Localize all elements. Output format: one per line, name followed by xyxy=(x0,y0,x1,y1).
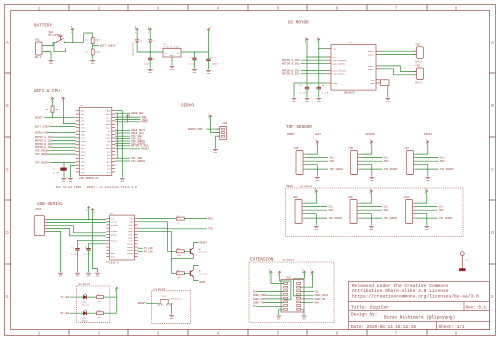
ground GND7 xyxy=(305,98,310,100)
svg-text:2SC1712: 2SC1712 xyxy=(199,251,208,254)
svg-text:https://creativecommons.org/li: https://creativecommons.org/licenses/by-… xyxy=(352,293,479,299)
svg-text:CN1: CN1 xyxy=(35,39,40,42)
wire USER_KEY2 cpu-right xyxy=(115,129,130,131)
ground GND15 xyxy=(58,272,63,274)
wire RESET cpu-right xyxy=(115,148,140,150)
test point TP1 xyxy=(460,252,464,256)
svg-text:DC MOTOR: DC MOTOR xyxy=(288,21,309,26)
wire CN8 sda xyxy=(305,209,327,211)
svg-text:+3.3V: +3.3V xyxy=(424,187,427,194)
svg-text:+BATT: +BATT xyxy=(208,112,211,119)
wire C1 tap xyxy=(149,52,151,58)
wire USER_KEY cpu-right xyxy=(115,112,130,114)
wire MOTOR_A_IN2 xyxy=(301,62,328,64)
wire U1 ground xyxy=(171,57,173,66)
svg-text:A: A xyxy=(491,40,494,46)
capacitor C2 xyxy=(192,57,196,59)
wire to R6 xyxy=(171,272,176,274)
svg-text:BIN2/BENBL: BIN2/BENBL xyxy=(333,73,346,76)
capacitor C1 xyxy=(148,57,152,59)
supply +3.3V arrow CN7 xyxy=(427,141,429,144)
svg-text:SDA: SDA xyxy=(439,209,444,212)
ground GND14 xyxy=(213,149,218,151)
wire CN9 gnd xyxy=(360,214,371,226)
svg-text:A: A xyxy=(6,40,9,46)
svg-text:CN12: CN12 xyxy=(286,277,293,280)
wire CN8 gnd xyxy=(305,214,316,226)
wire TX_LED to LED1 xyxy=(70,296,83,298)
svg-text:SERVO: SERVO xyxy=(181,104,194,109)
svg-text:4: 4 xyxy=(217,331,220,337)
svg-text:0.1uF: 0.1uF xyxy=(71,253,78,256)
svg-text:5: 5 xyxy=(277,331,280,337)
svg-text:MODE: MODE xyxy=(333,82,339,85)
svg-text:Title: DigiCar: Title: DigiCar xyxy=(351,304,389,310)
svg-text:3: 3 xyxy=(157,5,160,11)
svg-text:SCL: SCL xyxy=(253,305,258,308)
ground CN7 xyxy=(425,177,430,179)
svg-text:2: 2 xyxy=(98,5,101,11)
wire R4 to RXD label xyxy=(184,218,207,220)
svg-text:RIGHT: RIGHT xyxy=(424,133,432,136)
wire 3v3out rail xyxy=(92,212,97,272)
wire RESET to SW2 xyxy=(146,302,159,304)
wire CN6 scl xyxy=(361,157,383,159)
wire IO0 cpu-right xyxy=(115,116,140,118)
svg-text:TOF_SHDN6: TOF_SHDN6 xyxy=(35,153,49,156)
svg-text:Pin 17~22 (IO6 - IO11): no int: Pin 17~22 (IO6 - IO11): no internal flas… xyxy=(56,185,137,189)
svg-text:CN9: CN9 xyxy=(348,196,353,199)
wire usb pin2 xyxy=(47,222,106,224)
svg-text:3: 3 xyxy=(157,331,160,337)
svg-text:BOUT2: BOUT2 xyxy=(368,68,375,71)
svg-text:RESET: RESET xyxy=(138,302,146,305)
wire C1 to ground xyxy=(149,60,151,69)
frame row ticks left/right xyxy=(5,72,11,74)
connector CN2 xyxy=(417,47,424,59)
svg-text:no mount: no mount xyxy=(78,283,91,286)
supply 5V arrow leds xyxy=(116,287,118,290)
wire CN8 shdn xyxy=(305,217,327,219)
svg-text:Design by:: Design by: xyxy=(351,313,377,318)
svg-text:TOF SENSOR: TOF SENSOR xyxy=(286,125,312,130)
svg-text:GREEN: GREEN xyxy=(82,320,89,323)
svg-text:RESET: RESET xyxy=(141,148,149,151)
svg-text:+3.3V: +3.3V xyxy=(368,187,371,194)
dashed box extension xyxy=(249,262,334,323)
svg-text:D: D xyxy=(491,230,494,236)
svg-text:CN6: CN6 xyxy=(349,147,354,150)
diode LED2 GREEN xyxy=(83,311,86,315)
svg-text:0.1uF: 0.1uF xyxy=(53,172,60,175)
resistor R2 xyxy=(91,49,94,55)
wire LED1 to R7 xyxy=(86,296,96,298)
wire CN7 scl xyxy=(417,157,439,159)
svg-text:3V3: 3V3 xyxy=(93,208,96,213)
svg-text:0.1uF: 0.1uF xyxy=(84,253,91,256)
ground GND1 xyxy=(49,60,54,62)
svg-text:BATTERY: BATTERY xyxy=(34,24,52,29)
svg-text:CENTER: CENTER xyxy=(365,133,375,136)
supply V_USB arrow xyxy=(136,28,138,31)
wire Q2 emitter to BOOT xyxy=(194,277,199,281)
wire USER_PW ext-right xyxy=(301,298,314,300)
svg-text:no mount: no mount xyxy=(282,258,295,261)
wire U1 output bus xyxy=(181,51,208,53)
svg-text:CN7: CN7 xyxy=(405,147,410,150)
svg-text:SDA: SDA xyxy=(330,160,335,163)
supply +BATT arrow motor xyxy=(306,39,308,42)
wire C2 tap xyxy=(194,52,196,58)
supply V_BAT arrow xyxy=(72,28,74,31)
wire CN10 vcc xyxy=(416,193,427,203)
capacitor C4 xyxy=(305,86,309,88)
wire CN8 vcc xyxy=(305,193,316,203)
wire CN1 pin2 to ground xyxy=(44,52,51,60)
wire RX_LED to LED2 xyxy=(70,312,83,314)
ic U3 ESP-WROOM-32 xyxy=(79,107,112,175)
svg-text:E: E xyxy=(6,294,9,300)
svg-text:RESET: RESET xyxy=(200,241,208,244)
ic U4 FT231XS xyxy=(110,215,135,260)
ground CN9 xyxy=(369,226,374,228)
wire CN1 pin1 to switch xyxy=(44,42,56,45)
resistor R7 xyxy=(97,296,104,299)
wire D1 to bus xyxy=(149,42,151,52)
resistor R1 xyxy=(91,38,94,44)
ground GND18 xyxy=(95,272,100,274)
svg-text:E: E xyxy=(491,294,494,300)
svg-text:ESP-WROOM-32: ESP-WROOM-32 xyxy=(79,177,98,180)
ground CN6 xyxy=(369,177,374,179)
wire R7 to 5V rail xyxy=(104,296,117,298)
svg-text:SDA: SDA xyxy=(384,209,389,212)
svg-text:3V3OUT: 3V3OUT xyxy=(111,224,119,227)
svg-text:RX_LED: RX_LED xyxy=(60,312,70,315)
svg-text:EVPPNACDS14: EVPPNACDS14 xyxy=(169,297,183,300)
wire C7 top xyxy=(78,240,107,248)
ground GND6 xyxy=(206,70,211,72)
svg-text:Sheet: 1/1: Sheet: 1/1 xyxy=(439,325,465,330)
wire SCL ext-right xyxy=(301,291,314,293)
svg-text:FT231X-S: FT231X-S xyxy=(106,261,119,264)
svg-text:Attribution Share-Alike 3.0 Li: Attribution Share-Alike 3.0 License xyxy=(352,288,449,294)
svg-text:+3.3V: +3.3V xyxy=(60,95,63,102)
svg-text:Bizan Nishimura (@lipoyang): Bizan Nishimura (@lipoyang) xyxy=(384,316,455,321)
wire CN4 pin3 to ground xyxy=(215,136,219,148)
wire switch to battery net xyxy=(65,33,93,42)
wire cpu right rail2 xyxy=(116,113,118,158)
svg-text:TX_LED: TX_LED xyxy=(60,296,70,299)
svg-text:TXD: TXD xyxy=(208,228,213,231)
svg-text:+3.3V: +3.3V xyxy=(128,112,131,119)
regulator U1 TLV62569 xyxy=(163,49,181,58)
svg-text:TOF_SHDN4: TOF_SHDN4 xyxy=(329,217,343,220)
wire MOTOR_B_IN2 cpu-left xyxy=(52,146,76,148)
svg-text:LEFT: LEFT xyxy=(315,133,322,136)
connector CN4 servo xyxy=(220,127,227,140)
supply +3.3V arrow CN9 xyxy=(370,190,372,193)
wire TXD0 cpu-right xyxy=(115,118,140,120)
wire TXD to R4 xyxy=(138,218,176,220)
wire C7 gnd xyxy=(77,250,79,272)
svg-text:CN5: CN5 xyxy=(294,147,299,150)
supply +3.3V arrow CN8 xyxy=(315,190,317,193)
capacitor C5 xyxy=(317,86,321,88)
ground GND11 xyxy=(61,178,66,180)
wire cbus to R5 xyxy=(138,228,176,251)
svg-text:V_BAT: V_BAT xyxy=(302,268,305,275)
jumper SJ1 on ground pin xyxy=(379,82,382,84)
wire switch throw loop xyxy=(54,43,65,52)
svg-text:Date: 2020-08-14 15:52:25: Date: 2020-08-14 15:52:25 xyxy=(351,325,417,330)
transistor Q1 xyxy=(189,249,191,254)
svg-text:EH-2: EH-2 xyxy=(416,82,423,85)
capacitor C6 filled xyxy=(61,168,67,171)
wire TOF_SDA cpu-right xyxy=(115,135,130,137)
wire CN9 vcc xyxy=(360,193,371,203)
svg-text:BOOT: BOOT xyxy=(200,281,207,284)
svg-text:CN10: CN10 xyxy=(404,196,411,199)
wire TOF_SHDN6 cpu-left xyxy=(49,153,76,155)
wire ext3 xyxy=(294,274,305,296)
wire R2 to ground xyxy=(92,55,94,60)
wire TOF_SCL cpu-right xyxy=(115,138,130,140)
svg-text:WIFI & CPU: WIFI & CPU xyxy=(34,89,60,94)
supply +3.3V arrow motor xyxy=(318,39,320,42)
ground CN5 xyxy=(315,177,320,179)
wire CN5 shdn xyxy=(306,168,328,170)
wire +BATT to VM pin xyxy=(307,56,327,58)
supply V_BAT arrow ext3 xyxy=(304,271,306,274)
wire CN9 sda xyxy=(360,209,382,211)
svg-text:8: 8 xyxy=(455,331,458,337)
connector CN3 xyxy=(417,68,424,80)
wire +BATT to CN4 xyxy=(211,118,220,132)
wire MOTOR_A_IN1 xyxy=(301,59,328,61)
ground CN8 xyxy=(314,226,319,228)
wire V_USB to D2 xyxy=(136,31,138,39)
svg-text:6: 6 xyxy=(336,331,339,337)
ground GND21 xyxy=(276,315,281,317)
svg-text:CN8: CN8 xyxy=(293,196,298,199)
wire USER_KEY0 ext-right xyxy=(301,294,314,296)
wire CN5 sda xyxy=(306,160,328,162)
svg-text:10uF: 10uF xyxy=(144,62,150,65)
wire BATT_CHECK stub xyxy=(93,45,99,47)
diode LED1 YELLOW xyxy=(83,295,86,299)
resistor R5 xyxy=(176,250,184,253)
wire C8 gnd xyxy=(88,250,90,272)
diode D1 xyxy=(149,31,151,39)
wire usb dp xyxy=(47,229,106,236)
svg-text:SCL: SCL xyxy=(384,157,389,160)
supply +BATT arrow ext4 xyxy=(312,271,314,274)
svg-text:+3.3V: +3.3V xyxy=(425,138,428,145)
svg-text:+3.3V: +3.3V xyxy=(369,138,372,145)
svg-text:FRONT: FRONT xyxy=(287,133,295,136)
ground GND2 xyxy=(90,60,95,62)
svg-text:RXD: RXD xyxy=(208,218,213,221)
svg-text:CBUS3: CBUS3 xyxy=(127,252,134,255)
wire CN5 vcc xyxy=(306,144,317,154)
wire CN6 sda xyxy=(361,160,383,162)
svg-text:no mount: no mount xyxy=(300,185,313,188)
wire CN10 sda xyxy=(416,209,438,211)
wire D2 to input bus xyxy=(137,42,163,52)
svg-text:+BATT: +BATT xyxy=(304,36,307,43)
connector CN1 xyxy=(36,42,43,55)
wire usb shield gnd xyxy=(47,231,61,272)
resistor R3 pullup xyxy=(51,106,54,112)
svg-text:SDA: SDA xyxy=(329,209,334,212)
svg-text:+3.3V: +3.3V xyxy=(313,187,316,194)
wire RESET to EN pin xyxy=(44,117,76,119)
wire R6 to Q2 base xyxy=(184,272,190,274)
wire MOTOR_B_IN1 cpu-left xyxy=(52,143,76,145)
svg-text:USER_KEY0: USER_KEY0 xyxy=(315,294,329,297)
wire AOUT1 to CN2 xyxy=(380,50,417,52)
supply +3.3V arrow vcc xyxy=(62,98,64,101)
svg-text:TOF_SHDN4: TOF_SHDN4 xyxy=(35,161,49,164)
supply +BATT arrow servo xyxy=(210,115,212,118)
test point pad xyxy=(459,269,465,271)
wire MOTOR_A_IN1 cpu-left xyxy=(52,136,76,138)
wire +BATT rail down to C4 xyxy=(306,42,308,88)
svg-text:VI: VI xyxy=(165,52,167,55)
svg-text:V_BAT: V_BAT xyxy=(70,25,73,32)
svg-text:CN11: CN11 xyxy=(35,208,42,211)
wire BATT_CHECK cpu-left xyxy=(50,126,75,128)
ground GND12 xyxy=(68,178,73,180)
wire SERVO_PWM cpu-left xyxy=(49,131,76,133)
wire +3.3V to VCC pin xyxy=(319,48,327,50)
dashed box REAR no mount xyxy=(286,188,464,237)
svg-text:100k: 100k xyxy=(95,51,101,54)
wire CN10 scl xyxy=(416,206,438,208)
svg-text:CN3: CN3 xyxy=(416,65,421,68)
wire CN7 gnd xyxy=(417,165,428,177)
svg-text:USER_PW: USER_PW xyxy=(315,298,326,301)
wire Q2 collector xyxy=(194,266,199,270)
svg-text:RXD0: RXD0 xyxy=(141,121,148,124)
wire SW2 to ground xyxy=(171,303,172,314)
svg-text:AOUT2: AOUT2 xyxy=(368,54,375,57)
wire CN7 shdn xyxy=(417,168,439,170)
wire CN5 gnd xyxy=(306,165,317,177)
wire +3.3V to 3V3 pin xyxy=(63,101,75,124)
wire SDA ext-right xyxy=(301,302,314,304)
wire MODE pin to ground xyxy=(294,83,327,98)
svg-text:SCL: SCL xyxy=(384,206,389,209)
supply 5V arrow usb xyxy=(88,207,90,210)
svg-text:SDA: SDA xyxy=(440,160,445,163)
svg-text:SCL: SCL xyxy=(439,206,444,209)
wire cbus to R6 xyxy=(138,230,171,232)
svg-text:TOF_SHDN2: TOF_SHDN2 xyxy=(384,168,398,171)
wire USER_LED cpu-right xyxy=(115,132,130,134)
dashed box reset switch no mount xyxy=(152,291,191,324)
svg-text:TOF_SHDN5: TOF_SHDN5 xyxy=(384,217,398,220)
svg-text:0.1uF: 0.1uF xyxy=(300,92,307,95)
capacitor C3 xyxy=(206,58,210,60)
svg-text:6: 6 xyxy=(336,5,339,11)
wire cpu gnd2 down xyxy=(69,165,71,177)
svg-text:REAR: REAR xyxy=(287,185,294,188)
svg-text:1: 1 xyxy=(38,331,41,337)
svg-text:SW2: SW2 xyxy=(162,294,167,297)
svg-text:100uF: 100uF xyxy=(212,62,219,65)
svg-text:TLV62/3.3-DB: TLV62/3.3-DB xyxy=(163,46,179,49)
wire CN9 scl xyxy=(360,206,382,208)
dashed box LEDs no mount xyxy=(76,286,110,322)
wire CN10 shdn xyxy=(416,217,438,219)
title block frame xyxy=(349,282,490,330)
svg-text:5: 5 xyxy=(277,5,280,11)
wire CN6 gnd xyxy=(361,165,372,177)
svg-text:USER_TX: USER_TX xyxy=(253,302,264,305)
wire R5 to Q1 base xyxy=(184,250,190,252)
wire USER_RX ext-left xyxy=(263,298,283,300)
wire USER_PWM1 ext-left xyxy=(266,294,283,296)
svg-text:+BATT: +BATT xyxy=(310,268,313,275)
svg-text:+3.3V: +3.3V xyxy=(209,26,212,33)
svg-text:BATT_CHECK: BATT_CHECK xyxy=(100,45,116,48)
wire MOTOR_A_IN2 cpu-left xyxy=(52,140,76,142)
wire SCL ext-left xyxy=(257,305,283,307)
svg-text:AIN2/AENBL: AIN2/AENBL xyxy=(333,62,346,65)
ground GND8 xyxy=(316,98,321,100)
svg-text:SERVO_PWM: SERVO_PWM xyxy=(35,131,49,134)
svg-text:GND: GND xyxy=(170,55,173,57)
wire TOF_SDA cpu-right xyxy=(115,157,130,159)
svg-text:+3.3V: +3.3V xyxy=(314,138,317,145)
wire C4 to ground xyxy=(306,89,308,98)
svg-text:YELLOW: YELLOW xyxy=(82,303,90,306)
svg-text:USER_RX: USER_RX xyxy=(253,298,264,301)
svg-text:7: 7 xyxy=(395,5,398,11)
wire USER_TX ext-left xyxy=(263,302,283,304)
svg-text:USB-SERIAL: USB-SERIAL xyxy=(37,202,63,207)
wire ext gnd right xyxy=(301,310,304,315)
wire CN7 vcc xyxy=(417,144,428,154)
svg-text:V_BAT: V_BAT xyxy=(147,25,150,32)
wire ext1 xyxy=(271,274,284,283)
svg-text:D: D xyxy=(6,230,9,236)
wire RXD0 cpu-right xyxy=(115,121,140,123)
ground GND3 xyxy=(148,69,153,71)
svg-text:2: 2 xyxy=(98,331,101,337)
svg-text:SDA: SDA xyxy=(315,302,320,305)
svg-text:BATT_CHECK: BATT_CHECK xyxy=(35,125,51,128)
svg-text:Released under the Creative Co: Released under the Creative Commons xyxy=(352,283,449,289)
ground GND5 xyxy=(192,69,197,71)
wire MOTOR_A_IN1 cpu-right xyxy=(115,145,130,147)
svg-text:+3.3V: +3.3V xyxy=(268,268,271,275)
svg-text:8: 8 xyxy=(455,5,458,11)
svg-text:7: 7 xyxy=(395,331,398,337)
svg-text:SCL: SCL xyxy=(329,206,334,209)
ground GND13 xyxy=(120,178,125,180)
svg-text:CN2: CN2 xyxy=(416,43,421,46)
wire CN6 vcc xyxy=(361,144,372,154)
resistor R8 xyxy=(97,312,104,315)
resistor R6 xyxy=(176,272,184,275)
svg-text:TOF_SHDN3: TOF_SHDN3 xyxy=(440,168,454,171)
svg-text:C: C xyxy=(6,167,9,173)
wire BOUT2 to CN3 xyxy=(380,69,417,75)
svg-text:4: 4 xyxy=(217,5,220,11)
